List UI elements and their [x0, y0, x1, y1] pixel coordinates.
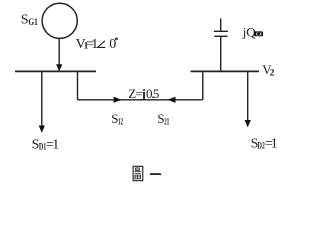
svg-text:1: 1: [91, 37, 98, 52]
svg-text:21: 21: [164, 117, 169, 127]
svg-text:5: 5: [153, 86, 160, 101]
svg-text:0: 0: [109, 37, 116, 52]
svg-text:G1: G1: [28, 18, 38, 28]
svg-text:2: 2: [270, 69, 275, 79]
svg-text:S: S: [21, 13, 29, 28]
svg-text:1: 1: [271, 137, 278, 152]
svg-text:12: 12: [118, 117, 123, 127]
svg-text:1: 1: [52, 138, 59, 153]
